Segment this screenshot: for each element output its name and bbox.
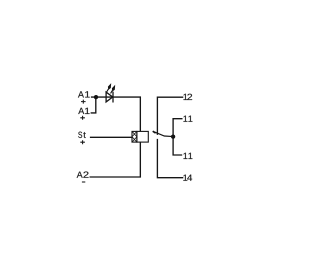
wire A1 top to corner and down to coil top [91, 97, 140, 131]
relay coil K1 [132, 131, 148, 142]
wire 11 upper, right vertical, 11 lower [173, 119, 182, 155]
label 11 lower [183, 153, 192, 159]
switch arm (changeover contact) [155, 132, 173, 136]
label 12 [183, 94, 192, 100]
label A1 (top) [78, 91, 90, 97]
label 14 [183, 175, 192, 181]
polarity + under A1 second [80, 116, 85, 120]
LED D1 [106, 92, 113, 103]
wire St [90, 136, 132, 138]
node junction dot right [171, 134, 175, 138]
label A2 [77, 172, 89, 178]
label 11 upper [183, 116, 192, 122]
polarity - under A2 [82, 181, 85, 183]
LED arrows [107, 83, 116, 93]
wire 12 and middle vertical top segment [157, 97, 183, 135]
node junction dot left [94, 95, 98, 99]
polarity + under St [80, 140, 85, 144]
label St [78, 132, 85, 138]
wire A1 second elbow [91, 97, 96, 113]
label A1 (second) [78, 108, 89, 114]
wire A2 to corner and up to coil bottom [90, 142, 141, 177]
polarity + under A1 top [81, 100, 86, 104]
contact tip tick [153, 131, 156, 133]
wire 14 and middle vertical bottom segment [157, 139, 183, 178]
